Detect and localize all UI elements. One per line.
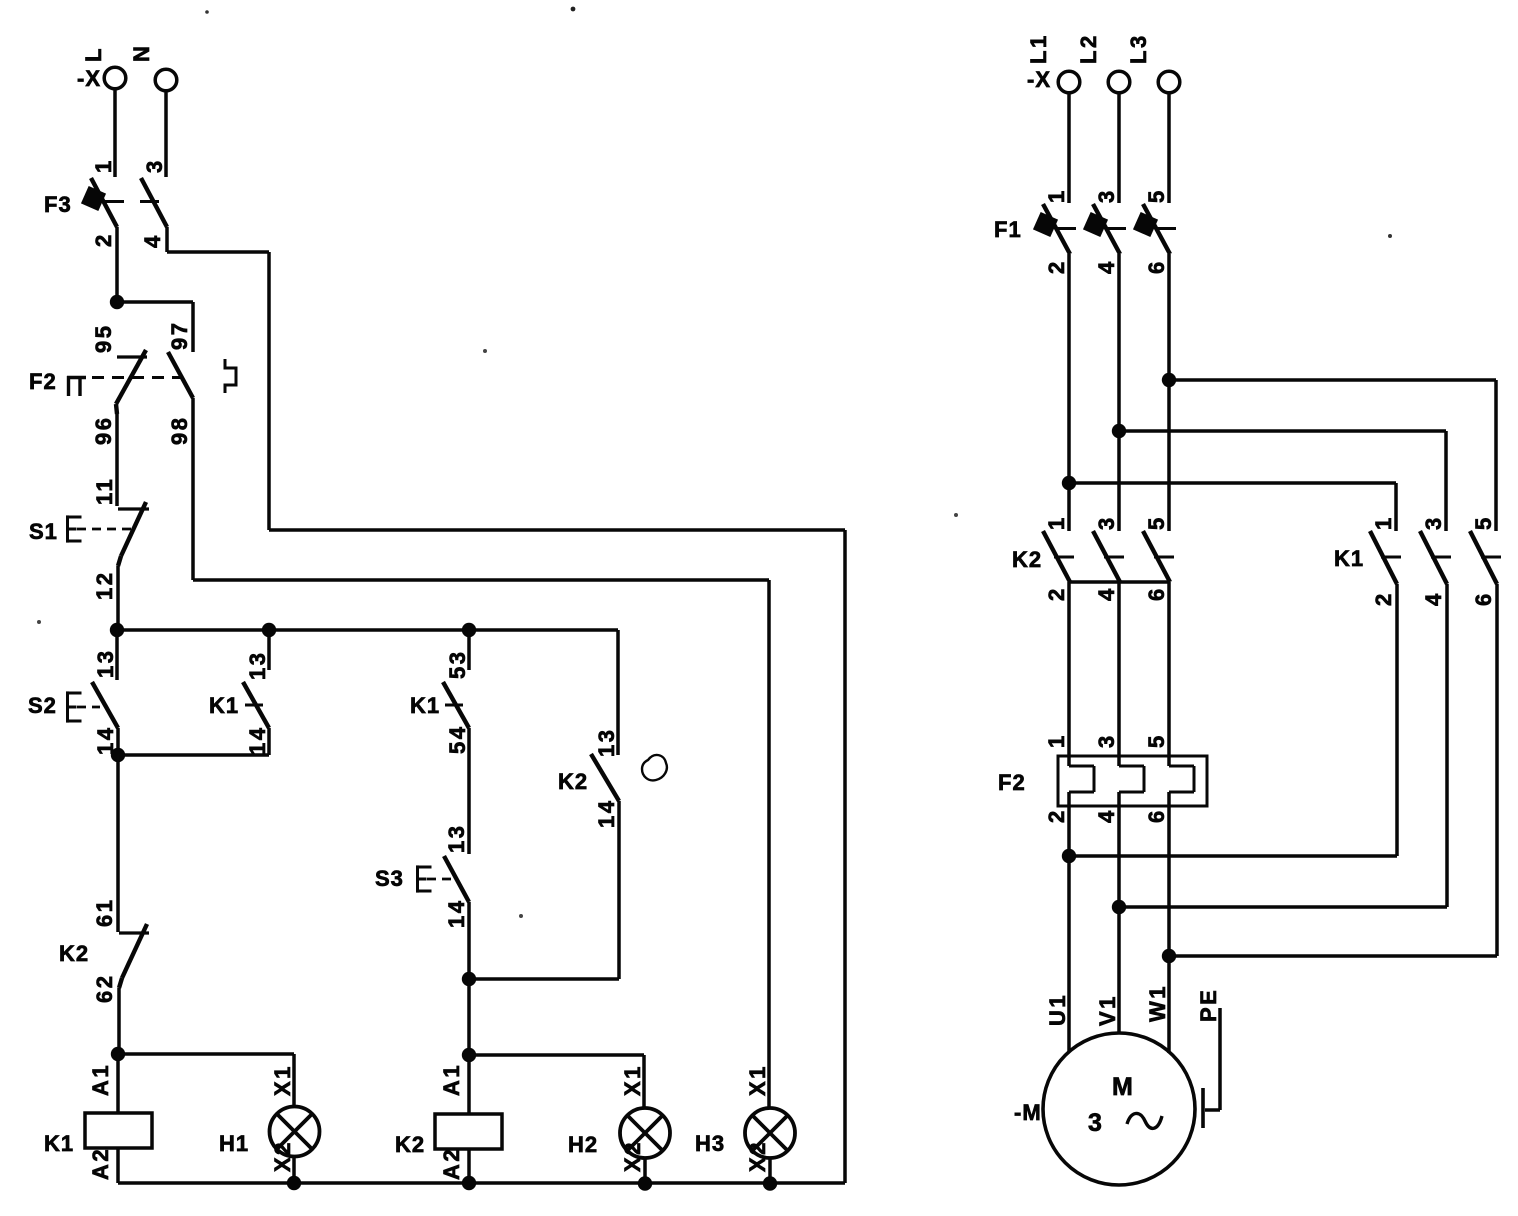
lamp H2 (620, 1108, 670, 1158)
svg-text:V1: V1 (1095, 994, 1120, 1026)
svg-text:3: 3 (1094, 515, 1119, 530)
svg-text:X2: X2 (745, 1140, 770, 1172)
wire K2-6 down to F2 (1167, 582, 1171, 756)
node bus junction K1-53 (462, 623, 476, 637)
svg-text:A2: A2 (439, 1147, 464, 1180)
svg-text:4: 4 (1421, 591, 1446, 606)
wire N down to F3 (164, 91, 168, 177)
svg-text:62: 62 (92, 974, 117, 1003)
wire L1 down (1067, 93, 1071, 203)
node bus dot H3 (763, 1176, 777, 1190)
svg-text:K2: K2 (59, 941, 89, 966)
node junction V phase (1112, 900, 1126, 914)
node junction S2/K1 link (111, 748, 125, 762)
svg-text:3: 3 (1094, 733, 1119, 748)
svg-text:X1: X1 (270, 1064, 295, 1096)
F2 heater element pole 2 (1117, 756, 1121, 766)
node N terminal (155, 69, 177, 91)
wire 54 down to S3 (467, 728, 471, 854)
contactor K1 pole 5-6 (1470, 531, 1497, 584)
svg-text:F2: F2 (998, 770, 1026, 795)
svg-text:61: 61 (92, 898, 117, 927)
wire 96 down to S1 (115, 412, 119, 506)
node bus dot H2 (638, 1176, 652, 1190)
svg-text:X2: X2 (270, 1140, 295, 1172)
node junction U phase (1062, 849, 1076, 863)
lamp H1 (270, 1107, 320, 1157)
wire 98 down (191, 398, 195, 580)
svg-text:F3: F3 (44, 192, 72, 217)
svg-text:-M: -M (1014, 1100, 1042, 1125)
svg-text:6: 6 (1471, 591, 1496, 606)
wire K1-6 down (1495, 584, 1499, 956)
node junction L3 branch (1162, 373, 1176, 387)
wire A1 K2 coil (467, 1055, 471, 1114)
node junction K2 coil / H2 (462, 1048, 476, 1062)
wire L down to F3 (113, 89, 117, 177)
svg-text:F1: F1 (994, 217, 1022, 242)
svg-text:98: 98 (167, 416, 192, 445)
svg-text:13: 13 (93, 649, 118, 678)
svg-text:-X: -X (77, 66, 101, 91)
svg-text:3: 3 (1094, 188, 1119, 203)
stop button S1 NC contact 11-12 (118, 507, 149, 510)
svg-text:K1: K1 (44, 1131, 74, 1156)
svg-text:X1: X1 (620, 1064, 645, 1096)
breaker F1 pole 5-6 (1143, 204, 1170, 254)
wire A2 K1 coil (116, 1148, 120, 1183)
svg-text:4: 4 (140, 233, 165, 248)
wire bus corner down (616, 630, 620, 755)
svg-text:H1: H1 (219, 1131, 249, 1156)
svg-text:M: M (1112, 1073, 1133, 1101)
S2 button actuator (66, 691, 69, 722)
svg-text:12: 12 (92, 571, 117, 600)
svg-text:-X: -X (1027, 67, 1051, 92)
svg-text:13: 13 (594, 728, 619, 757)
svg-text:6: 6 (1144, 586, 1169, 601)
coil K1 (85, 1113, 152, 1148)
contactor K2 pole 5-6 (1143, 531, 1170, 582)
wire F1-2 down (1067, 254, 1071, 531)
overload relay F2 NC contact 95-96 (117, 355, 147, 358)
breaker F1 pole 1-2 (1043, 204, 1070, 254)
earth bar PE (1201, 1088, 1205, 1128)
svg-text:L1: L1 (1026, 33, 1051, 64)
wire control bus (117, 628, 618, 632)
svg-text:X2: X2 (620, 1140, 645, 1172)
svg-text:1: 1 (1044, 188, 1069, 203)
S3 button actuator (416, 865, 419, 892)
wire to H1 (118, 1052, 294, 1056)
svg-text:S3: S3 (375, 866, 404, 891)
wire K1-14 down (267, 728, 271, 755)
svg-text:5: 5 (1471, 515, 1496, 530)
svg-text:95: 95 (91, 324, 116, 353)
wire A1 K1 coil (116, 1054, 120, 1113)
wire bus to K1 aux (267, 630, 271, 670)
contactor K2 pole 1-2 (1043, 531, 1070, 582)
wire L3 branch to K1 (1169, 378, 1496, 382)
svg-text:F2: F2 (29, 369, 57, 394)
svg-text:97: 97 (167, 321, 192, 350)
wire bus to K1-53 (467, 630, 471, 670)
breaker F3 pole 1-2 (91, 178, 117, 227)
contactor K2 aux contact 13-14 (591, 754, 619, 801)
svg-text:A1: A1 (88, 1063, 113, 1096)
svg-text:A2: A2 (88, 1147, 113, 1180)
svg-text:96: 96 (91, 416, 116, 445)
wire F3-4 to corner (165, 227, 169, 252)
contactor K1 aux contact 53-54 (443, 682, 469, 728)
contactor K2 pole 3-4 (1093, 531, 1120, 582)
svg-text:L: L (81, 46, 106, 62)
svg-text:54: 54 (445, 725, 470, 754)
wire H3 to bus (768, 1158, 772, 1184)
contactor K1 pole 3-4 (1420, 531, 1447, 584)
svg-text:K1: K1 (209, 693, 239, 718)
svg-text:3: 3 (142, 158, 167, 173)
node junction K1 coil / H1 (111, 1047, 125, 1061)
pushbutton S3 NO contact 13-14 (444, 856, 469, 902)
svg-text:4: 4 (1094, 586, 1119, 601)
svg-text:H3: H3 (695, 1131, 725, 1156)
svg-text:N: N (129, 44, 154, 62)
svg-text:14: 14 (594, 799, 619, 828)
wire H2 to bus (643, 1158, 647, 1184)
breaker F1 pole 3-4 (1093, 204, 1120, 254)
svg-text:1: 1 (1044, 515, 1069, 530)
svg-text:K1: K1 (1334, 546, 1364, 571)
svg-text:4: 4 (1094, 808, 1119, 823)
contactor K1 pole 1-2 (1370, 531, 1397, 584)
node junction above F2 (110, 295, 124, 309)
svg-text:H2: H2 (568, 1132, 598, 1157)
svg-text:L2: L2 (1076, 33, 1101, 64)
wire L1 branch to K1 (1069, 481, 1396, 485)
svg-text:5: 5 (1144, 733, 1169, 748)
svg-text:5: 5 (1144, 188, 1169, 203)
node junction L1 branch (1062, 476, 1076, 490)
svg-text:11: 11 (92, 477, 117, 505)
wire F3-2 down (115, 227, 119, 302)
contactor K1 aux contact 13-14 (243, 682, 269, 728)
svg-text:X1: X1 (745, 1064, 770, 1096)
node L3 terminal (1158, 71, 1180, 93)
wire S3-14 down (467, 902, 471, 1055)
ink blob artifact (642, 755, 667, 780)
F2 trip symbol (67, 376, 70, 396)
svg-text:K2: K2 (1012, 547, 1042, 572)
lamp H3 (745, 1108, 795, 1158)
wire F1-6 down (1167, 254, 1171, 531)
overload relay F2 NO contact 97-98 (168, 352, 193, 398)
svg-text:53: 53 (445, 650, 470, 679)
wire K2-4 down to F2 (1117, 582, 1121, 756)
S1 button actuator (66, 515, 69, 542)
node bus junction K1 (262, 623, 276, 637)
wire to H2 (469, 1053, 644, 1057)
wire right edge down (843, 530, 847, 1183)
F2 heater element pole 3 (1167, 756, 1171, 766)
svg-text:13: 13 (245, 651, 270, 680)
wire K2aux to branch (469, 977, 619, 981)
svg-text:U1: U1 (1045, 993, 1070, 1026)
svg-text:1: 1 (91, 158, 116, 173)
svg-text:5: 5 (1144, 515, 1169, 530)
svg-text:S1: S1 (29, 519, 58, 544)
wire K2aux-14 down (617, 801, 621, 979)
svg-text:1: 1 (1371, 515, 1396, 530)
svg-text:2: 2 (91, 232, 116, 247)
node junction W phase (1162, 949, 1176, 963)
node junction L2 branch (1112, 424, 1126, 438)
svg-text:3: 3 (1421, 515, 1446, 530)
wire H3 feed down (767, 580, 771, 1108)
svg-text:14: 14 (245, 726, 270, 755)
wire S2-K1 link (118, 753, 269, 757)
breaker F3 pole 3-4 (141, 178, 167, 227)
svg-text:3: 3 (1088, 1109, 1102, 1137)
F2 heater element pole 1 (1067, 756, 1071, 766)
wire A2 K2 coil (467, 1149, 471, 1183)
wire H1 to bus (292, 1156, 296, 1183)
svg-text:13: 13 (444, 824, 469, 853)
contactor K2 NC contact 61-62 (119, 931, 149, 934)
wire W1 to motor (1167, 806, 1171, 1053)
node bus dot H1 (287, 1176, 301, 1190)
coil K2 (435, 1114, 502, 1149)
node bus junction S2 (110, 623, 124, 637)
svg-text:A1: A1 (439, 1063, 464, 1096)
wire L3 down (1167, 93, 1171, 203)
wire PE stub (1218, 1008, 1222, 1110)
wire N-branch horizontal (269, 528, 845, 532)
wire K2-2 down to F2 (1067, 582, 1071, 756)
node L1 terminal -X (1058, 71, 1080, 93)
svg-text:W1: W1 (1145, 984, 1170, 1022)
svg-text:PE: PE (1196, 988, 1221, 1022)
wire L2 branch to K1 (1119, 429, 1446, 433)
overload relay F2 box (1058, 756, 1207, 806)
svg-text:2: 2 (1044, 259, 1069, 274)
svg-text:14: 14 (444, 899, 469, 928)
svg-text:S2: S2 (28, 693, 57, 718)
wire 62 down (117, 988, 121, 1054)
F2 reset step symbol (225, 359, 236, 393)
wire bus to S2 (115, 630, 119, 680)
svg-text:1: 1 (1044, 733, 1069, 748)
svg-text:2: 2 (1044, 808, 1069, 823)
svg-text:6: 6 (1144, 808, 1169, 823)
node bus dot K2 coil (462, 1176, 476, 1190)
speck (571, 7, 576, 12)
svg-text:K2: K2 (558, 769, 588, 794)
svg-text:4: 4 (1094, 259, 1119, 274)
svg-text:K1: K1 (410, 693, 440, 718)
wire branch to 97 (117, 300, 193, 304)
svg-text:2: 2 (1044, 586, 1069, 601)
wire U1 to motor (1067, 806, 1071, 1052)
wire K2 bottom bar (1069, 580, 1170, 584)
wire F1-4 down (1117, 254, 1121, 531)
svg-text:2: 2 (1371, 591, 1396, 606)
wire bottom bus (118, 1181, 845, 1185)
wire 12 down to bus (116, 566, 120, 630)
wire K1-4 down (1445, 584, 1449, 907)
motor M1 (1043, 1033, 1195, 1185)
svg-text:L3: L3 (1126, 33, 1151, 64)
wire S2-14 down (116, 728, 120, 755)
wire V1 to motor (1117, 806, 1121, 1033)
wire 98 horizontal (193, 578, 769, 582)
F2 linkage dashed line (92, 376, 181, 379)
svg-text:6: 6 (1144, 259, 1169, 274)
node L terminal -X (104, 67, 126, 89)
wire S2 junction to K2 (116, 755, 120, 932)
wire L2 down (1117, 93, 1121, 203)
svg-text:K2: K2 (395, 1132, 425, 1157)
node L2 terminal (1108, 71, 1130, 93)
node junction S3/K2aux (462, 972, 476, 986)
wire K1-2 down (1395, 584, 1399, 856)
start button S2 NO contact 13-14 (92, 682, 118, 728)
